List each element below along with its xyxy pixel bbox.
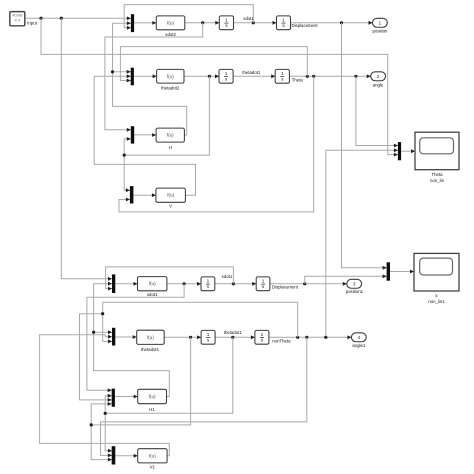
svg-text:1: 1 — [281, 71, 284, 76]
svg-text:thetadot1: thetadot1 — [141, 347, 160, 352]
wire nonTheta up to scope mux U5 — [326, 148, 398, 337]
wire Theta feedback up to mux U2 — [120, 47, 307, 83]
label Theta — [292, 77, 304, 82]
svg-text:1: 1 — [282, 18, 285, 23]
integrator U_I7 — [201, 330, 215, 344]
svg-text:xdot2: xdot2 — [165, 32, 176, 37]
function block V — [156, 188, 186, 202]
svg-text:thetadot1: thetadot1 — [242, 70, 261, 75]
svg-text:1: 1 — [225, 18, 228, 23]
wire mux U4 to V f(u) — [133, 193, 156, 197]
wire mux U1 to xdot2 f(u) — [134, 21, 156, 25]
label angle — [373, 82, 384, 87]
wire Theta to angle port — [289, 74, 370, 78]
wire xdot1 feedback to mux U7 — [106, 267, 234, 291]
label nonTheta — [272, 338, 291, 343]
svg-text:1: 1 — [207, 332, 210, 337]
wire Theta feedback down to V mux U4 — [119, 76, 314, 212]
wire Theta to scope mux U5 — [356, 76, 398, 147]
function block xdot2 — [156, 16, 185, 30]
mux U9 (H1 inputs) — [112, 389, 115, 407]
mux U1 (xdot2 inputs) — [131, 14, 134, 32]
svg-text:position1: position1 — [346, 289, 364, 294]
svg-text:V1: V1 — [150, 464, 156, 469]
mux U7 (xdot1 inputs) — [112, 274, 115, 293]
label position — [373, 28, 389, 33]
svg-text:Displacement: Displacement — [272, 284, 299, 289]
wire xdot1 feedback over top to mux U1 — [124, 5, 253, 30]
label position1 — [346, 289, 364, 294]
svg-text:xdot1: xdot1 — [243, 16, 254, 21]
label angle1 — [352, 343, 366, 348]
label V1 — [150, 464, 156, 469]
svg-text:H: H — [169, 145, 172, 150]
svg-text:nonTheta: nonTheta — [272, 338, 291, 343]
wire thetaddot2 to H and V muxes — [123, 76, 210, 192]
label V — [169, 204, 172, 209]
scope x non_lin1 — [414, 253, 459, 291]
label thetadot1 signal — [224, 330, 243, 335]
svg-text:f(u): f(u) — [167, 20, 174, 25]
label x non_lin1 — [428, 293, 445, 304]
wire mux U3 to H f(u) — [134, 133, 156, 137]
node input junction A — [39, 17, 63, 20]
wire mux U10 to V1 f(u) — [116, 454, 138, 458]
mux U3 (H inputs) — [131, 126, 134, 143]
label Displacement — [292, 23, 319, 28]
wire H1 output feedback to mux U8 and mux U7 — [92, 282, 169, 397]
svg-text:Theta: Theta — [292, 77, 304, 82]
svg-text:1: 1 — [261, 332, 264, 337]
label xdot1 block — [147, 292, 158, 297]
function block H — [156, 128, 184, 142]
label thetadot1 block — [141, 347, 160, 352]
wire scope mux U5 to Theta scope — [401, 149, 415, 153]
label thetadot2 — [161, 85, 180, 90]
svg-text:1: 1 — [225, 71, 228, 76]
svg-text:angle1: angle1 — [352, 343, 366, 348]
integrator U_I6 — [256, 277, 270, 291]
function block xdot1 — [138, 277, 167, 291]
wire thetadot2 out to integrator — [184, 74, 219, 78]
integrator U_I2 — [277, 16, 291, 30]
label H1 — [149, 407, 155, 412]
integrator U_I1 — [219, 16, 233, 30]
outport 1 position — [373, 18, 388, 27]
svg-text:position: position — [373, 28, 389, 33]
function block V1 — [138, 449, 167, 463]
mux U6 (x scope inputs) — [387, 262, 390, 280]
label Displacement1 — [272, 284, 299, 289]
function block H1 — [138, 389, 167, 403]
svg-text:f(u): f(u) — [167, 193, 174, 198]
wire V output feedback to mux U2 — [94, 74, 195, 195]
wire thetadot1 feedback to H1 and V1 muxes — [104, 337, 233, 452]
wire scope mux U6 to x scope — [390, 270, 414, 274]
wire xdot1 signal segment — [215, 282, 256, 286]
wire mux U9 to H1 f(u) — [115, 395, 138, 399]
label xdot1 signal — [222, 274, 233, 279]
label H — [169, 145, 172, 150]
svg-text:f(u): f(u) — [147, 335, 154, 340]
wire thetadot1 f(u) out to integrator — [164, 335, 201, 339]
svg-text:thetadot2: thetadot2 — [161, 85, 180, 90]
wire mux U8 to thetadot1 f(u) — [115, 335, 136, 339]
outport 2 angle — [371, 72, 386, 81]
svg-text:thetadot1: thetadot1 — [224, 330, 243, 335]
scope Theta non_lin — [415, 132, 459, 170]
svg-text:4 9: 4 9 — [15, 17, 21, 22]
mux U2 (thetadot2 inputs) — [131, 68, 134, 86]
wire thetaddot1 feedback to H1 and V1 muxes — [90, 337, 191, 461]
label thetadot1 — [242, 70, 261, 75]
label xdot2 — [165, 32, 176, 37]
wire Displacement to position port — [291, 21, 373, 25]
svg-text:f(u): f(u) — [167, 133, 174, 138]
svg-text:xdot1: xdot1 — [147, 292, 158, 297]
wire Input to mux U1 — [25, 16, 131, 20]
wire xddot1 feedback to H1 mux U9 — [87, 284, 184, 392]
svg-text:non_lin: non_lin — [430, 178, 445, 183]
wire Input to nonlinear mux U7 — [61, 18, 112, 280]
wire xddot2 feedback to H mux U3 — [105, 23, 203, 132]
svg-text:Input: Input — [27, 20, 37, 25]
function block thetadot1 — [137, 330, 165, 344]
label xdot1 — [243, 16, 254, 21]
mux U5 (Theta scope inputs) — [398, 142, 401, 160]
wire nonTheta feedback to H1 mux U9 and mux U8 — [80, 302, 298, 402]
wire Input to Theta-scope mux (down, right, down) — [41, 18, 398, 156]
mux U10 (V1 inputs) — [112, 446, 116, 464]
integrator U_I3 — [219, 69, 233, 83]
wire thetadot1 segment — [233, 74, 275, 78]
svg-text:Theta: Theta — [431, 172, 443, 177]
integrator U_I8 — [255, 330, 269, 344]
mux U4 (V inputs) — [130, 186, 134, 203]
svg-text:H1: H1 — [149, 407, 155, 412]
svg-text:Displacement: Displacement — [292, 23, 319, 28]
wire nonTheta to angle1 port — [269, 335, 352, 339]
wire Displacement1 to position1 port — [270, 282, 347, 286]
function block thetadot2 — [157, 69, 184, 83]
integrator U_I4 — [275, 69, 289, 83]
outport 4 angle1 — [351, 333, 366, 342]
wire thetadot1 signal segment — [215, 335, 255, 339]
svg-text:xdot1: xdot1 — [222, 274, 233, 279]
wire mux U2 to thetadot2 f(u) — [134, 74, 157, 78]
svg-text:f(u): f(u) — [167, 74, 174, 79]
integrator U_I5 — [201, 277, 215, 291]
svg-text:V: V — [169, 204, 172, 209]
svg-text:non_lin1: non_lin1 — [428, 299, 445, 304]
svg-text:f(u): f(u) — [149, 281, 156, 286]
mux U8 (thetadot1 inputs) — [112, 328, 115, 346]
wire xdot1 f(u) out to integrator — [167, 282, 201, 286]
label Input — [27, 20, 37, 25]
wire H output feedback to mux U2 and mux U1 — [111, 21, 187, 135]
svg-text:1: 1 — [262, 279, 265, 284]
wire V1 output feedback to mux U8 — [40, 335, 170, 456]
svg-text:angle: angle — [373, 82, 384, 87]
wire mux U7 to xdot1 f(u) — [115, 282, 137, 286]
wire xdot1 segment — [234, 21, 277, 25]
wire position1 up to x-scope mux U6 — [305, 274, 387, 283]
svg-text:f(u): f(u) — [149, 394, 156, 399]
svg-text:f(u): f(u) — [149, 453, 156, 458]
wire position down to x-scope mux U6 — [342, 23, 387, 270]
input source block Input — [10, 12, 25, 26]
wire nonTheta feedback to V1 mux U10 in2 — [101, 337, 307, 457]
svg-text:1: 1 — [207, 279, 210, 284]
label Theta non_lin — [430, 172, 445, 183]
outport 3 position1 — [347, 279, 362, 288]
wire xdot2 out to integrator — [185, 21, 220, 25]
